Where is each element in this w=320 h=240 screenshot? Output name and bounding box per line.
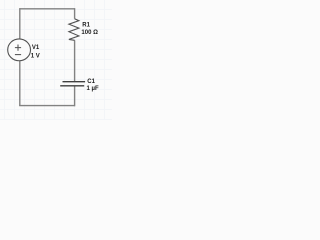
background bbox=[0, 0, 112, 120]
svg-text:V1: V1 bbox=[32, 45, 40, 51]
svg-text:100 Ω: 100 Ω bbox=[81, 30, 98, 36]
wire right upper bbox=[74, 8, 76, 19]
wire capacitor-to-bottom bbox=[74, 86, 76, 106]
wire left upper bbox=[19, 8, 21, 39]
wire top bbox=[20, 8, 75, 10]
svg-text:R1: R1 bbox=[82, 22, 90, 28]
svg-text:C1: C1 bbox=[87, 79, 95, 85]
wire left lower bbox=[19, 61, 21, 106]
wire bottom bbox=[19, 105, 75, 107]
voltage source V1 bbox=[8, 39, 31, 61]
capacitor C1 bbox=[60, 82, 85, 86]
svg-text:1 µF: 1 µF bbox=[87, 86, 99, 92]
wire resistor-to-capacitor bbox=[74, 40, 76, 81]
resistor R1 bbox=[69, 19, 79, 41]
svg-text:1 V: 1 V bbox=[31, 53, 40, 59]
